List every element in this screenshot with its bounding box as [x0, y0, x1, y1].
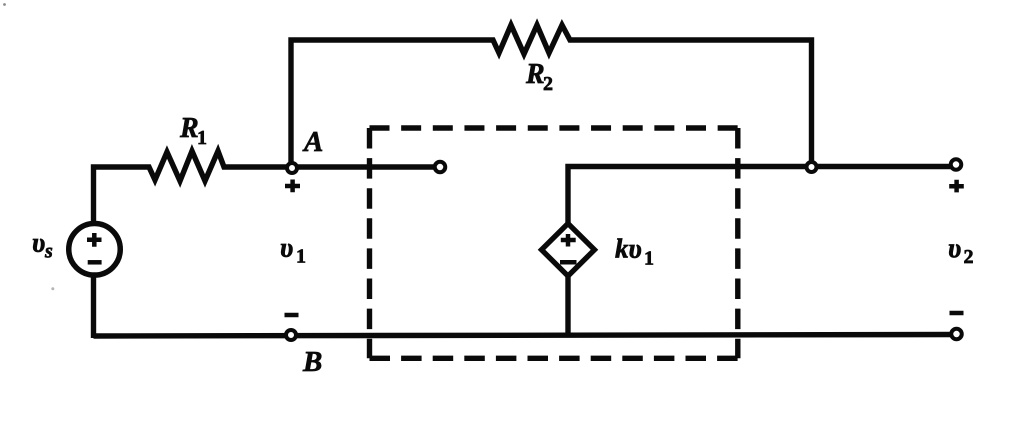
svg-text:2: 2: [543, 73, 553, 95]
svg-text:kυ: kυ: [615, 234, 642, 264]
svg-text:1: 1: [644, 248, 654, 270]
svg-text:s: s: [44, 241, 53, 263]
svg-text:υ: υ: [32, 228, 45, 258]
svg-text:R: R: [179, 113, 199, 144]
svg-text:1: 1: [197, 127, 207, 149]
svg-text:υ: υ: [948, 233, 961, 263]
svg-text:2: 2: [964, 246, 974, 268]
svg-text:B: B: [302, 346, 322, 378]
svg-text:1: 1: [296, 246, 306, 268]
svg-text:R: R: [525, 59, 545, 90]
svg-text:A: A: [302, 126, 323, 158]
svg-text:υ: υ: [280, 233, 293, 263]
